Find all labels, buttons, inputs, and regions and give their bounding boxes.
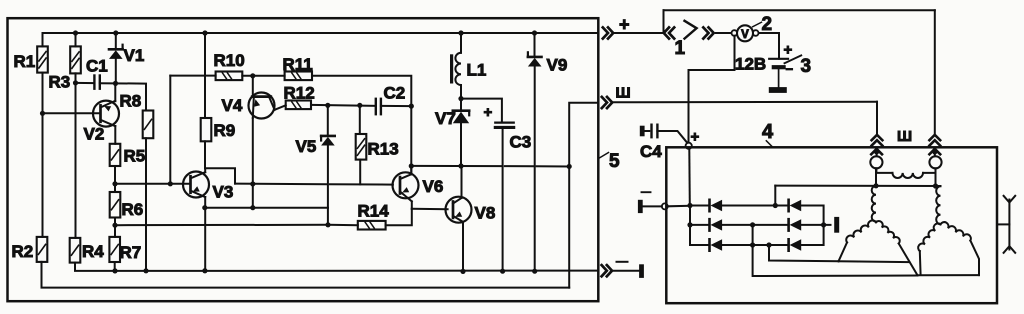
svg-text:R4: R4 <box>82 242 104 261</box>
svg-text:+: + <box>691 129 700 146</box>
svg-text:R8: R8 <box>120 92 142 111</box>
svg-text:R1: R1 <box>14 52 36 71</box>
svg-text:12В: 12В <box>735 55 766 74</box>
svg-text:R14: R14 <box>358 202 390 221</box>
svg-text:R11: R11 <box>283 55 313 74</box>
svg-text:C3: C3 <box>510 133 532 152</box>
svg-text:+: + <box>784 42 793 59</box>
svg-text:V4: V4 <box>222 96 243 115</box>
svg-text:V: V <box>741 29 749 41</box>
svg-text:V1: V1 <box>124 46 145 65</box>
svg-text:V7: V7 <box>435 109 456 128</box>
svg-text:V8: V8 <box>475 204 496 223</box>
svg-text:R12: R12 <box>284 84 315 103</box>
svg-text:R6: R6 <box>122 200 144 219</box>
svg-text:V2: V2 <box>84 125 105 144</box>
svg-text:R7: R7 <box>120 243 142 262</box>
svg-text:R5: R5 <box>124 147 146 166</box>
svg-text:3: 3 <box>801 56 812 77</box>
svg-text:Ш: Ш <box>897 128 912 145</box>
svg-text:C2: C2 <box>384 84 406 103</box>
svg-text:−: − <box>786 62 794 77</box>
svg-text:Ш: Ш <box>616 85 631 102</box>
svg-text:V6: V6 <box>423 177 444 196</box>
svg-text:C4: C4 <box>640 142 662 161</box>
svg-text:R10: R10 <box>214 51 245 70</box>
svg-text:+: + <box>484 104 493 121</box>
svg-text:C1: C1 <box>86 57 108 76</box>
svg-text:V9: V9 <box>547 56 568 75</box>
svg-text:5: 5 <box>609 151 620 172</box>
svg-text:1: 1 <box>675 38 686 59</box>
svg-text:R3: R3 <box>49 73 71 92</box>
svg-text:4: 4 <box>762 121 774 143</box>
svg-text:R2: R2 <box>12 242 34 261</box>
svg-text:L1: L1 <box>467 61 487 80</box>
svg-text:R13: R13 <box>368 140 399 159</box>
svg-text:2: 2 <box>762 14 773 35</box>
svg-text:V3: V3 <box>213 183 234 202</box>
svg-text:R9: R9 <box>214 121 236 140</box>
svg-text:+: + <box>619 15 630 35</box>
svg-text:V5: V5 <box>296 137 317 156</box>
